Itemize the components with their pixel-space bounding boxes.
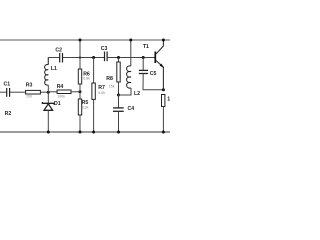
inductor L1 bbox=[45, 58, 57, 93]
resistor R8 bbox=[106, 62, 120, 82]
junction ground at D1 column bbox=[47, 131, 50, 134]
junction base line at R7 column bbox=[92, 56, 95, 59]
svg-text:5.6k: 5.6k bbox=[98, 91, 105, 95]
wire base line down to R7 bbox=[93, 58, 95, 84]
capacitor C4 bbox=[113, 106, 134, 112]
svg-text:C3: C3 bbox=[101, 46, 108, 52]
wire C3 to base of T1 bbox=[108, 57, 155, 59]
wire base line down to C5 bbox=[142, 58, 144, 71]
wire bottom ground rail bbox=[0, 131, 170, 133]
diode D1 zener bbox=[42, 101, 60, 110]
svg-text:R8: R8 bbox=[106, 76, 113, 82]
inductor L2 bbox=[119, 66, 141, 97]
junction emitter/C5 bbox=[162, 88, 165, 91]
svg-text:L1: L1 bbox=[51, 66, 57, 72]
junction base line at R6 column bbox=[79, 56, 81, 58]
wire C1 to R3 bbox=[10, 91, 26, 93]
wire R7 to ground rail bbox=[93, 99, 95, 132]
wire base line left corner to C2 bbox=[48, 58, 59, 65]
wire R4 to node B bbox=[71, 91, 80, 93]
wire supply rail down to L2 bbox=[130, 40, 132, 66]
wire top supply rail bbox=[0, 39, 170, 41]
wire R3 to node A bbox=[40, 91, 48, 93]
svg-text:T1: T1 bbox=[143, 44, 149, 50]
svg-text:6.8k: 6.8k bbox=[83, 77, 90, 81]
resistor R6 bbox=[78, 69, 90, 84]
resistor R3 bbox=[26, 82, 41, 94]
svg-text:200: 200 bbox=[26, 94, 32, 98]
junction ground at C4 column bbox=[117, 131, 120, 134]
junction ground at R5 column bbox=[79, 131, 82, 134]
junction supply rail at L2 column bbox=[129, 39, 132, 42]
capacitor C3 bbox=[101, 46, 108, 61]
node B junction R4/R6/R5 bbox=[79, 90, 82, 93]
capacitor C2 bbox=[55, 48, 62, 63]
svg-text:R4: R4 bbox=[57, 84, 64, 90]
junction base line at C5 column bbox=[142, 56, 145, 59]
resistor R5 bbox=[78, 99, 88, 115]
svg-text:C4: C4 bbox=[128, 106, 135, 112]
resistor R7 bbox=[92, 83, 105, 99]
transistor T1 bbox=[143, 40, 164, 90]
svg-text:15: 15 bbox=[167, 96, 170, 102]
junction supply rail at collector bbox=[162, 39, 165, 42]
wire R5 to ground rail bbox=[79, 115, 81, 132]
svg-text:100k: 100k bbox=[57, 94, 65, 98]
junction R8/L2/C4 bbox=[117, 94, 120, 97]
svg-text:D1: D1 bbox=[54, 101, 61, 107]
junction supply rail at R6 column bbox=[79, 39, 82, 42]
wire supply rail to R6 bbox=[79, 40, 81, 69]
wire base line down to R8 bbox=[118, 58, 120, 63]
junction ground at R7 column bbox=[92, 131, 95, 134]
svg-text:15k: 15k bbox=[109, 84, 115, 88]
svg-text:C1: C1 bbox=[4, 81, 11, 87]
resistor R4 bbox=[57, 84, 71, 94]
svg-text:R2: R2 bbox=[5, 111, 12, 117]
wire junction down to C4 bbox=[118, 95, 120, 108]
wire D1 to ground rail bbox=[47, 110, 49, 132]
svg-text:8.2k: 8.2k bbox=[82, 105, 89, 109]
junction ground at emitter column bbox=[162, 131, 165, 134]
svg-text:R3: R3 bbox=[26, 82, 33, 88]
wire R6 to node B bbox=[79, 84, 81, 99]
svg-text:C5: C5 bbox=[150, 71, 157, 77]
node A junction L1/R3/R4/D1 bbox=[47, 91, 50, 94]
wire C4 to ground rail bbox=[118, 111, 120, 132]
svg-text:L2: L2 bbox=[134, 91, 140, 97]
junction base line at R8 column bbox=[117, 56, 120, 59]
wire node A down to D1 bbox=[47, 92, 49, 104]
capacitor C1 bbox=[4, 81, 11, 96]
wire C2 to C3 bbox=[63, 57, 104, 59]
svg-text:C2: C2 bbox=[55, 48, 62, 54]
wire emitter resistor to ground rail bbox=[162, 107, 164, 133]
wire node A to R4 bbox=[48, 91, 57, 93]
wire R8 to L2 junction bbox=[118, 82, 120, 95]
resistor R9 emitter bbox=[162, 95, 174, 107]
capacitor C5 bbox=[139, 70, 157, 77]
wire C5 to emitter junction bbox=[143, 74, 163, 90]
wire input segment to C1 bbox=[0, 91, 6, 93]
